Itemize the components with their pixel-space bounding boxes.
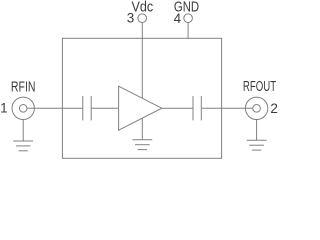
svg-text:2: 2 (270, 101, 278, 116)
svg-text:RFOUT: RFOUT (243, 79, 276, 95)
wire Vdc pin 3 to amplifier top (141, 23, 143, 99)
svg-text:3: 3 (127, 11, 135, 26)
svg-text:4: 4 (174, 11, 182, 26)
wire C2 to RFOUT connector (201, 107, 253, 109)
ground symbol at amplifier (132, 140, 152, 150)
svg-text:Vdc: Vdc (132, 0, 154, 16)
wire amplifier to ground (141, 118, 143, 140)
connector J2 RFOUT inner circle (253, 105, 261, 113)
ground symbol at RFOUT (247, 140, 267, 150)
capacitor C1 right plate (90, 96, 92, 120)
amplifier block box U1 (62, 38, 221, 158)
capacitor C2 right plate (200, 96, 202, 120)
wire C1 to amplifier input (91, 107, 118, 109)
svg-text:RFIN: RFIN (11, 79, 36, 95)
connector J1 RFIN outer circle (12, 97, 34, 119)
pin 3 terminal circle Vdc (138, 14, 147, 23)
ground symbol at RFIN (13, 141, 33, 151)
wire amplifier output to capacitor C2 (162, 107, 193, 109)
svg-text:1: 1 (0, 100, 8, 115)
connector J1 RFIN inner circle (19, 105, 27, 113)
wire RFIN shield to ground (22, 120, 24, 142)
wire RFOUT shield to ground (256, 120, 258, 141)
wire RFIN to capacitor C1 (27, 107, 83, 109)
pin 4 terminal circle GND (184, 14, 193, 23)
wire GND pin 4 to box top (187, 23, 189, 39)
connector J2 RFOUT outer circle (245, 97, 267, 119)
capacitor C1 left plate (82, 96, 84, 120)
op-amp amplifier triangle A1 (119, 86, 162, 130)
capacitor C2 left plate (192, 96, 194, 120)
